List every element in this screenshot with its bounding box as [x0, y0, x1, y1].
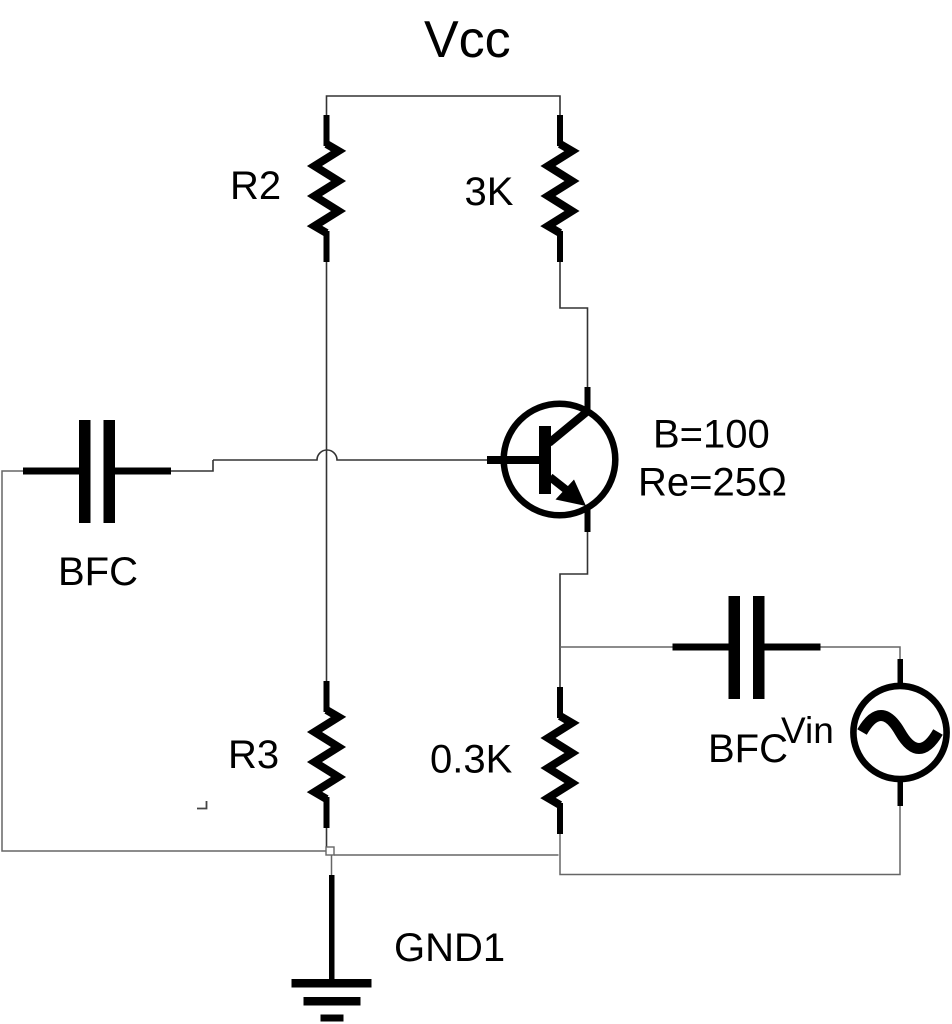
svg-text:3K: 3K	[465, 170, 514, 214]
svg-text:0.3K: 0.3K	[430, 738, 513, 782]
svg-text:R3: R3	[228, 733, 279, 777]
svg-text:Re=25Ω: Re=25Ω	[638, 461, 787, 505]
svg-text:GND1: GND1	[394, 926, 505, 970]
svg-text:BFC: BFC	[58, 550, 138, 594]
svg-text:R2: R2	[230, 164, 281, 208]
svg-text:BFC: BFC	[708, 727, 788, 771]
svg-text:Vcc: Vcc	[424, 11, 511, 69]
svg-text:Vin: Vin	[781, 710, 834, 751]
svg-text:B=100: B=100	[653, 413, 770, 457]
